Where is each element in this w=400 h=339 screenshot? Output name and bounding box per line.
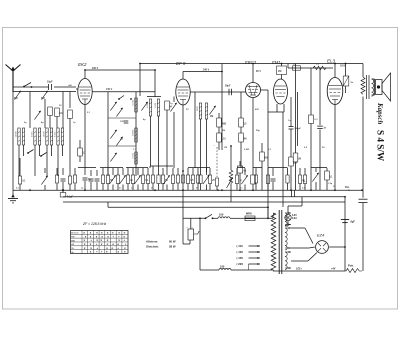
capacitor row x91 <box>89 170 94 190</box>
table wave ranges <box>71 231 129 254</box>
label ZF <box>82 222 107 226</box>
resistor row x158.5 <box>157 168 160 190</box>
svg-text:8µF: 8µF <box>351 221 356 224</box>
wire EM1 pins <box>268 104 284 112</box>
trimmer row x167 <box>163 168 169 190</box>
capacitor 5nF top <box>293 64 301 71</box>
svg-text:60 W: 60 W <box>169 240 176 244</box>
wire EL3 top <box>334 64 336 78</box>
svg-text:2µ: 2µ <box>24 122 27 124</box>
capacitor 1uF x85 <box>83 168 92 190</box>
antenna switch <box>23 83 32 88</box>
text Kapsch <box>376 102 384 125</box>
coil L5 0,015 <box>132 98 137 112</box>
svg-text:+4V: +4V <box>331 268 336 271</box>
svg-text:x: x <box>124 250 126 254</box>
wire fuse to trafo <box>255 215 273 218</box>
svg-text:13000: 13000 <box>15 130 17 137</box>
resistor 100 top <box>218 213 230 219</box>
wire coil3 down <box>47 145 52 176</box>
wire secondary to speaker <box>372 79 375 95</box>
ladder rung 1 <box>108 117 136 119</box>
svg-text:( 220: ( 220 <box>237 262 244 266</box>
svg-text:6,3V: 6,3V <box>292 215 297 217</box>
ladder rung 2 <box>108 145 136 147</box>
svg-text:Pot.: Pot. <box>345 186 350 189</box>
antenna <box>6 65 21 93</box>
label n50 <box>68 85 73 87</box>
label 0,1 left row <box>16 188 20 190</box>
resistor cathode EF9 <box>181 170 184 183</box>
wire mains top <box>183 217 205 219</box>
output transformer secondary <box>372 79 374 96</box>
resistor row x188 <box>186 168 194 190</box>
svg-text:x: x <box>101 242 103 246</box>
selector tap 220 <box>237 262 261 266</box>
resistor 0,15 <box>217 133 227 150</box>
svg-text:0,3A: 0,3A <box>292 217 297 220</box>
ladder trimmer d <box>116 137 122 146</box>
svg-text:30: 30 <box>59 105 62 107</box>
ladder switch <box>118 96 132 100</box>
wire link y168 left <box>78 167 96 169</box>
svg-text:0,1: 0,1 <box>87 112 91 114</box>
wire link y168 m6 <box>253 167 262 169</box>
wire v x30 <box>29 92 31 129</box>
capacitor row x63 <box>61 168 66 190</box>
wire coil4 down <box>58 145 63 176</box>
label 50p det <box>256 130 260 132</box>
resistor Pott <box>345 264 362 273</box>
capacitor row x273 <box>271 168 276 190</box>
tube EL3 <box>327 59 343 105</box>
trimmer row x123 <box>119 168 125 190</box>
wire det coils <box>201 119 207 172</box>
svg-text:( 130: ( 130 <box>237 250 244 254</box>
text power note <box>146 240 176 249</box>
wire bus y190 <box>13 189 362 191</box>
wire speaker return <box>362 97 364 198</box>
svg-text:240 V: 240 V <box>106 88 113 91</box>
svg-text:40V: 40V <box>255 108 259 111</box>
svg-text:0,1: 0,1 <box>315 119 319 121</box>
wire link y166 m3 <box>150 166 173 168</box>
wire antenna down <box>12 90 14 190</box>
wire bus y202 <box>63 201 345 203</box>
label 0,5 r <box>304 147 308 149</box>
capacitor 0,1 EL3 <box>325 168 333 190</box>
IF2 coil left <box>147 99 152 116</box>
wire EK2 grid <box>76 88 78 90</box>
label 30 <box>59 105 62 107</box>
ladder trimmer c <box>110 130 116 139</box>
wire riser x222 <box>221 64 223 151</box>
svg-text:EL3: EL3 <box>327 59 336 64</box>
wire EBC3 top <box>252 64 254 83</box>
wire ladder bottoms <box>108 165 136 176</box>
wire y68 right <box>288 64 333 69</box>
coil ladder left rail <box>107 92 109 165</box>
label 220V2 <box>0 0 1 1</box>
junction dot pot <box>217 145 241 191</box>
label 1n r <box>288 120 291 122</box>
wire bottom to trafo <box>231 269 273 271</box>
svg-text:0,015: 0,015 <box>54 131 56 137</box>
wire bottom right bus <box>273 268 345 272</box>
resistor anode stopper <box>343 64 349 94</box>
svg-text:1µ: 1µ <box>81 188 84 190</box>
svg-text:1000: 1000 <box>155 102 157 108</box>
wire mains right drop <box>199 217 201 270</box>
svg-text:Gleichstr.: Gleichstr. <box>146 245 159 249</box>
trimmer row x45 <box>41 168 47 190</box>
svg-text:4µ: 4µ <box>303 180 306 183</box>
coil L2 0,015 <box>31 128 40 145</box>
capacitor row x128 <box>126 168 133 190</box>
capacitor 1n x320 <box>317 126 326 190</box>
svg-text:0,1: 0,1 <box>268 149 272 151</box>
wire x311 <box>310 68 312 115</box>
resistor link bottom <box>215 178 218 190</box>
wire switch to resistor <box>213 217 219 219</box>
svg-text:ZF = 128,5 kHz: ZF = 128,5 kHz <box>82 222 107 226</box>
label 5k <box>351 82 354 84</box>
svg-text:+: + <box>96 250 98 254</box>
resistor row x200.5 <box>199 168 202 190</box>
resistor 0,1 left <box>18 158 26 190</box>
wire B+ riser <box>344 202 346 271</box>
tube EK2 <box>78 62 92 105</box>
label 0,1 det <box>268 149 272 151</box>
label 250V <box>340 66 346 68</box>
label 4u IF2 <box>143 118 146 121</box>
transformer core <box>279 210 282 274</box>
svg-text:EZ4: EZ4 <box>317 233 325 238</box>
tube EZ4 <box>316 233 329 254</box>
wire mains drop left <box>183 207 190 244</box>
wire EF9 cathode <box>182 105 184 190</box>
svg-text:4µ: 4µ <box>143 118 146 121</box>
wire EBC3 down <box>252 98 254 176</box>
wire riser x155 <box>154 70 156 97</box>
label 40V <box>255 108 259 111</box>
capacitor 50pF <box>225 86 232 96</box>
wire x268 drop <box>267 207 269 219</box>
ladder capacitor <box>124 121 129 123</box>
wire EK2 cathode down <box>84 105 86 169</box>
volume potentiometer <box>227 146 233 188</box>
resistor 0,3 input <box>55 108 63 117</box>
wire x158 down <box>158 116 160 168</box>
svg-text:5nF: 5nF <box>293 64 298 66</box>
svg-text:S 4 S/W: S 4 S/W <box>376 130 386 162</box>
secondary taps <box>285 212 291 269</box>
trimmer det <box>209 106 215 118</box>
wire bus drops <box>108 197 345 208</box>
resistor 1M right <box>293 153 301 190</box>
svg-text:0,1: 0,1 <box>329 176 333 178</box>
junction dots bus right <box>267 189 363 248</box>
svg-text:0,15: 0,15 <box>221 138 226 140</box>
coil L3 10000 <box>43 128 52 145</box>
svg-text:0,1: 0,1 <box>16 188 20 190</box>
ground left <box>8 190 18 203</box>
wire link y168 m1 <box>100 167 123 169</box>
capacitor row x300 <box>298 168 305 190</box>
selector tap 130 <box>237 250 261 254</box>
wire link y168 m2 <box>126 167 148 169</box>
resistor x70 <box>68 110 73 119</box>
coil L4 0,015 <box>54 128 63 145</box>
svg-text:500pF: 500pF <box>295 128 302 130</box>
svg-text:1n: 1n <box>130 180 133 182</box>
svg-text:x: x <box>106 250 108 254</box>
svg-text:50pF: 50pF <box>225 86 231 88</box>
IF2 resistor 44 <box>165 101 173 110</box>
label 1g <box>170 103 173 105</box>
label 1M det <box>224 147 227 149</box>
trimmer row x113 <box>109 168 115 190</box>
svg-text:0,3: 0,3 <box>59 113 63 115</box>
IF2 resistor left <box>141 102 147 111</box>
capacitor 8uF <box>341 220 356 224</box>
svg-text:10pF: 10pF <box>47 81 53 84</box>
capacitor 0,1uF mid <box>309 115 319 190</box>
svg-text:0,5: 0,5 <box>243 123 247 125</box>
wire riser x295 <box>295 64 297 154</box>
svg-text:0,1µF: 0,1µF <box>67 197 74 199</box>
label 0,1 EK2 <box>87 112 91 114</box>
junction dots top <box>84 63 346 71</box>
svg-text:( 150: ( 150 <box>237 256 244 260</box>
resistor row x118 <box>116 168 119 190</box>
resistor row x153 <box>151 166 154 190</box>
dial lamp <box>285 197 302 226</box>
mains plug <box>187 218 200 240</box>
svg-text:Allstrom: Allstrom <box>146 240 158 244</box>
svg-text:1µ: 1µ <box>73 122 76 124</box>
mains switch <box>205 214 214 219</box>
resistor 0,5M <box>239 92 247 133</box>
capacitor row x97 <box>95 170 100 190</box>
coil ladder right rail <box>135 92 137 165</box>
svg-text:1MΩ: 1MΩ <box>221 123 226 125</box>
resistor 1M <box>217 113 227 133</box>
svg-text:+: + <box>101 250 103 254</box>
resistor input x50 <box>48 107 53 128</box>
resistor row x173 <box>171 168 174 190</box>
svg-text:100: 100 <box>219 213 224 217</box>
svg-text:KW: KW <box>71 236 74 238</box>
wire x57 down <box>56 117 58 129</box>
svg-text:MFM: MFM <box>246 212 251 215</box>
resistor top zigzag <box>313 64 326 70</box>
svg-text:Kapsch: Kapsch <box>376 102 384 125</box>
svg-text:LW: LW <box>71 244 74 246</box>
label 1,5u 18 <box>328 183 336 188</box>
svg-text:1n: 1n <box>323 127 326 129</box>
svg-text:EM1: EM1 <box>272 60 281 65</box>
wire speaker return lower <box>362 203 364 271</box>
wire x320 <box>319 68 321 125</box>
svg-text:0,1: 0,1 <box>145 180 149 182</box>
capacitor 10pF <box>47 81 53 91</box>
svg-text:EBC3: EBC3 <box>245 60 257 65</box>
svg-text:10000: 10000 <box>43 130 45 137</box>
svg-text:18: 18 <box>333 186 336 188</box>
tube EM1 <box>272 60 288 104</box>
label 5n row <box>119 188 122 190</box>
wire x297 down <box>297 92 299 146</box>
svg-text:2V: 2V <box>186 109 189 111</box>
svg-text:EF 9: EF 9 <box>176 61 186 66</box>
IF2 top wire <box>147 96 161 98</box>
resistor row x268 <box>266 168 269 190</box>
ladder trimmer a <box>110 102 116 111</box>
selector tap 150 <box>237 256 261 260</box>
svg-text:25: 25 <box>212 180 215 182</box>
label 0,5 row <box>131 188 135 190</box>
svg-text:2M: 2M <box>210 116 213 118</box>
label 2V <box>186 109 189 111</box>
svg-text:1M: 1M <box>224 147 227 149</box>
wire input top <box>13 86 76 88</box>
svg-text:~: ~ <box>213 144 215 147</box>
capacitor speaker line <box>359 199 368 202</box>
svg-text:0,015: 0,015 <box>132 152 134 158</box>
wire x268 <box>267 90 269 218</box>
capacitor 5nF det <box>237 161 246 190</box>
band switch b <box>40 153 46 157</box>
label 43 <box>120 138 123 141</box>
wire winding to EZ4 b <box>291 247 315 248</box>
resistor row x305 <box>303 168 306 190</box>
capacitor row x163 <box>161 168 168 190</box>
trimmer 5pF a <box>14 91 21 100</box>
svg-text:2M: 2M <box>222 130 225 132</box>
svg-text:50: 50 <box>196 188 199 190</box>
label 2M det <box>222 130 225 132</box>
wire EM1 top <box>281 64 283 80</box>
label 80V <box>256 70 261 73</box>
resistor row x178 <box>176 168 179 190</box>
wire link y168 m5 <box>237 167 245 169</box>
resistor EM1 target box <box>277 66 287 75</box>
resistor row x256 <box>254 168 257 190</box>
capacitor row x237 <box>235 168 242 190</box>
svg-text:240 V: 240 V <box>203 68 210 71</box>
tube EF9 <box>176 61 190 105</box>
trimmer row x206.5 <box>203 168 209 190</box>
svg-text:4µ: 4µ <box>41 121 44 124</box>
svg-text:~: ~ <box>192 225 194 229</box>
svg-text:100: 100 <box>220 264 225 268</box>
label 240V EF9 <box>203 68 210 71</box>
IF2 coil right <box>155 99 160 116</box>
coil L6 10000 <box>132 128 137 142</box>
svg-text:0,5: 0,5 <box>190 180 194 182</box>
speaker <box>376 73 391 101</box>
wire bus y197 <box>63 196 345 198</box>
wire winding to EZ4 a <box>291 228 313 244</box>
resistor row x57b <box>55 168 58 190</box>
wire x167 down <box>166 110 168 168</box>
transformer secondary windings <box>285 213 287 270</box>
svg-text:5k: 5k <box>351 82 354 84</box>
svg-text:1,5µ: 1,5µ <box>328 183 333 185</box>
tube EBC3 <box>245 60 261 98</box>
svg-text:2M: 2M <box>278 70 281 73</box>
trimmer row x138 <box>134 168 140 190</box>
resistor row x70 <box>68 176 71 190</box>
label 2u <box>24 122 27 124</box>
svg-text:x: x <box>84 246 86 250</box>
ladder trimmer b <box>116 108 122 117</box>
svg-text:( 110: ( 110 <box>237 244 244 248</box>
svg-text:0,5: 0,5 <box>131 188 135 190</box>
wire EZ4 out <box>329 246 345 248</box>
label 25 row <box>151 188 154 190</box>
label 1n row2 <box>240 188 243 190</box>
wire pot bottom <box>230 184 232 203</box>
svg-text:1g: 1g <box>170 103 173 105</box>
svg-text:Bereich: Bereich <box>71 233 79 235</box>
svg-text:2M: 2M <box>243 138 246 140</box>
wire x183 drop <box>182 190 184 207</box>
wire anode link EK2 <box>92 91 155 93</box>
resistor row x148 <box>146 168 149 190</box>
trimmer 5pF b <box>41 91 48 100</box>
wire x150 down <box>150 116 152 166</box>
wire coil2 down <box>35 145 40 176</box>
svg-text:28 W: 28 W <box>169 245 176 249</box>
wire riser x140 <box>139 64 141 97</box>
svg-text:1n: 1n <box>239 180 242 182</box>
resistor row x133 <box>131 168 134 190</box>
svg-text:0,1: 0,1 <box>22 181 26 183</box>
resistor 150 <box>289 157 298 190</box>
wire v x45 <box>44 99 46 128</box>
label 0,1 row3 <box>302 188 306 190</box>
band switch a <box>27 150 33 154</box>
label 220V <box>92 67 99 70</box>
resistor row x198 <box>196 168 199 190</box>
svg-text:0,3M: 0,3M <box>244 149 249 151</box>
wire top bus <box>140 63 363 65</box>
wire mains bottom <box>200 269 219 271</box>
text S 4 S/W <box>376 130 386 162</box>
resistor x80 extra <box>78 140 86 162</box>
svg-text:250V: 250V <box>340 66 346 68</box>
wire link y168 m4 <box>188 167 210 169</box>
wire to fuse <box>230 217 245 219</box>
resistor row x143 <box>141 168 149 190</box>
svg-text:EK2: EK2 <box>78 62 87 67</box>
fuse MFM <box>245 212 255 220</box>
svg-text:1M: 1M <box>298 158 301 160</box>
label 130 <box>120 121 124 123</box>
wire EL3 cathode <box>334 105 336 191</box>
resistor 50k <box>260 143 269 190</box>
label 1,3 <box>133 149 137 151</box>
svg-text:220 V: 220 V <box>92 67 99 70</box>
transformer primary winding <box>271 213 276 271</box>
svg-text:( EZ+: ( EZ+ <box>296 268 303 271</box>
junction dots bus <box>29 189 336 191</box>
label 0,3M <box>244 149 249 151</box>
ladder trimmer e <box>110 153 116 162</box>
label 4u right <box>303 180 306 183</box>
